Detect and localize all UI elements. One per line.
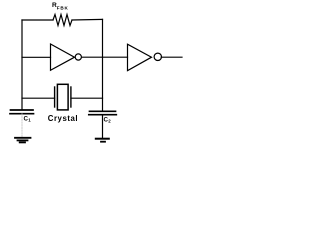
capacitor C2 top plate	[90, 110, 116, 112]
label C1	[24, 115, 32, 122]
crystal Y1 right plate	[70, 87, 72, 107]
wire U2 output	[161, 56, 182, 58]
wire crystal left	[22, 97, 55, 99]
svg-text:Crystal: Crystal	[48, 114, 78, 123]
wire inverter U1 input	[22, 56, 51, 58]
label RFBK	[52, 2, 69, 10]
svg-text:FBK: FBK	[57, 5, 69, 10]
wire crystal right	[71, 97, 103, 99]
ground right	[96, 139, 109, 142]
label C2	[104, 116, 112, 123]
op-amp U1 output bubble	[75, 54, 81, 60]
wire U1 output to U2 input	[82, 56, 128, 58]
wire C1 to ground (faint in scan)	[21, 114, 23, 137]
wire top feedback right stub	[72, 18, 103, 21]
op-amp U2 inverter triangle	[128, 44, 152, 70]
capacitor C2 bottom plate	[89, 114, 117, 116]
wire C2 to ground	[102, 115, 104, 138]
crystal Y1 body	[57, 84, 68, 110]
ground left	[15, 138, 31, 143]
svg-text:2: 2	[108, 119, 111, 124]
resistor RFBK	[53, 15, 72, 26]
wire right rail	[102, 19, 104, 110]
svg-text:1: 1	[28, 118, 31, 123]
crystal Y1 left plate	[54, 87, 56, 107]
wire left rail	[21, 20, 23, 110]
op-amp U1 inverter triangle	[51, 44, 75, 70]
capacitor C1 top plate	[11, 109, 34, 111]
capacitor C1 bottom plate	[10, 113, 34, 115]
op-amp U2 output bubble	[154, 53, 161, 60]
wire top feedback left stub	[22, 19, 53, 21]
